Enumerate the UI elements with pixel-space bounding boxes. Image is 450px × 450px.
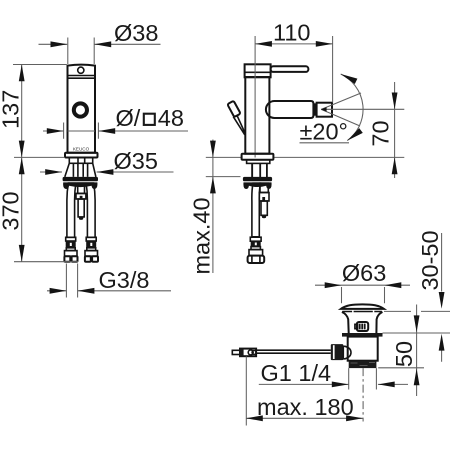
mounting surface line (side) <box>206 156 404 158</box>
cap screw hole <box>78 67 84 73</box>
escutcheon top reference line <box>206 176 241 178</box>
dimension Ø63 <box>315 260 410 303</box>
overflow slot <box>357 322 368 331</box>
shaft below baseplate (side) <box>247 160 270 164</box>
supply hose (side) <box>252 183 261 237</box>
neck block <box>69 158 92 164</box>
dimension 70 <box>368 82 398 178</box>
110 dim extension line through body <box>254 36 256 158</box>
±20° label <box>300 142 350 144</box>
escutcheon flange (side) <box>243 177 272 181</box>
thread G1 1/4 <box>349 361 377 368</box>
dimension 50 <box>391 305 420 397</box>
spout step (dark joint) <box>313 103 316 115</box>
pop-up rod (side, behind hose) <box>259 183 269 218</box>
svg-text:Ø35: Ø35 <box>114 148 158 174</box>
spout centerline <box>321 108 404 110</box>
arc arrowhead top <box>341 74 358 84</box>
plug neck and body <box>342 312 383 333</box>
svg-text:Ø/: Ø/ <box>116 105 141 131</box>
dimension 30-50 <box>417 230 445 361</box>
baseplate (front) <box>65 153 98 158</box>
svg-text:30-50: 30-50 <box>417 230 443 290</box>
countertop surface lines <box>378 311 450 367</box>
flare trapezoid <box>65 163 96 177</box>
svg-text:Ø38: Ø38 <box>114 20 158 46</box>
svg-text:max. 180: max. 180 <box>257 394 354 420</box>
button ring <box>74 103 87 116</box>
cartridge cap (side) <box>245 64 271 77</box>
faucet body (front) <box>68 65 96 153</box>
backnut washer <box>342 333 383 337</box>
svg-text:±20°: ±20° <box>300 119 348 145</box>
svg-text:370: 370 <box>0 191 23 230</box>
pop-up knob lever (side) <box>227 101 240 117</box>
dimension 370 <box>0 157 78 261</box>
hose fitting right <box>85 237 98 261</box>
dimension Ø38 <box>39 20 161 64</box>
cap band lines <box>68 76 96 79</box>
aerator <box>317 103 332 117</box>
swivel range annotation <box>300 74 405 145</box>
drain centerline (dashed) <box>362 368 364 421</box>
svg-text:137: 137 <box>0 90 23 129</box>
svg-text:110: 110 <box>273 20 310 46</box>
swivel arc <box>341 74 363 141</box>
spout (side) <box>266 101 314 118</box>
pull rod <box>256 350 331 353</box>
dimension max. 180 <box>246 356 363 425</box>
supply hose left (front) <box>67 183 76 237</box>
rod left end pieces <box>232 350 240 354</box>
svg-text:G1 1/4: G1 1/4 <box>261 360 332 386</box>
drain plug dome <box>341 304 384 309</box>
svg-text:max.40: max.40 <box>189 197 215 274</box>
dimension Ø/□48 <box>43 105 188 139</box>
svg-text:50: 50 <box>391 341 417 367</box>
dimension 137 <box>0 65 67 158</box>
lever handle <box>271 66 309 72</box>
baseplate (side) <box>242 154 274 160</box>
faucet body (side) <box>245 77 269 154</box>
arc arrowhead bottom <box>347 128 363 141</box>
ball joint <box>331 344 344 360</box>
tailpiece extension lines <box>349 368 377 389</box>
svg-text:KEUCO: KEUCO <box>73 147 90 152</box>
dimension Ø35 <box>40 148 174 175</box>
fan lines <box>321 93 361 126</box>
pop-up rod to body <box>233 115 245 135</box>
dimension G1 1/4 <box>259 360 408 387</box>
dimension 110 <box>255 20 333 103</box>
svg-text:Ø63: Ø63 <box>342 260 386 286</box>
hose fitting (side) <box>248 237 265 263</box>
svg-text:G3/8: G3/8 <box>99 267 150 293</box>
dimension max. 40 <box>189 140 216 275</box>
fan apex arrowhead <box>321 107 327 112</box>
svg-text:48: 48 <box>158 105 184 131</box>
dimension G3/8 <box>47 264 171 298</box>
hose fitting left <box>64 237 77 261</box>
drain body <box>348 337 378 361</box>
svg-text:70: 70 <box>368 120 394 146</box>
supply hose right (front) <box>86 183 95 237</box>
escutcheon flange (front) <box>63 177 98 181</box>
pop-up rod (center, front) <box>78 183 85 193</box>
